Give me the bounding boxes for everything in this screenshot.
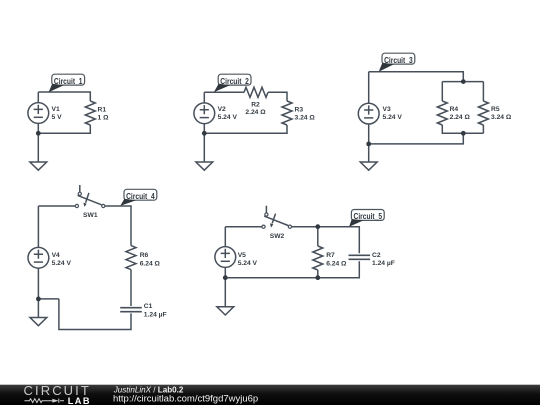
- svg-text:2.24 Ω: 2.24 Ω: [245, 109, 266, 116]
- svg-text:5.24 V: 5.24 V: [238, 260, 258, 267]
- svg-text:5.24 V: 5.24 V: [383, 114, 403, 121]
- svg-text:V5: V5: [238, 252, 246, 259]
- svg-text:SW2: SW2: [270, 233, 285, 240]
- svg-text:C2: C2: [372, 252, 381, 259]
- svg-text:LAB: LAB: [68, 396, 91, 405]
- svg-text:R7: R7: [326, 252, 335, 259]
- svg-text:V2: V2: [218, 106, 226, 113]
- svg-text:V3: V3: [383, 106, 391, 113]
- svg-text:1.24 µF: 1.24 µF: [372, 260, 395, 267]
- svg-text:R3: R3: [295, 107, 304, 114]
- svg-text:6.24 Ω: 6.24 Ω: [326, 260, 347, 267]
- svg-text:1.24 µF: 1.24 µF: [144, 311, 167, 318]
- svg-text:5.24 V: 5.24 V: [218, 114, 238, 121]
- svg-text:SW1: SW1: [83, 212, 98, 219]
- svg-text:R6: R6: [140, 252, 149, 259]
- svg-text:R4: R4: [450, 106, 459, 113]
- svg-text:R2: R2: [251, 102, 260, 109]
- svg-text:3.24 Ω: 3.24 Ω: [295, 115, 316, 122]
- svg-text:2.24 Ω: 2.24 Ω: [450, 114, 471, 121]
- svg-text:V4: V4: [52, 252, 60, 259]
- svg-text:V1: V1: [52, 106, 60, 113]
- svg-text:5.24 V: 5.24 V: [52, 260, 72, 267]
- svg-text:http://circuitlab.com/ct9fgd7w: http://circuitlab.com/ct9fgd7wyju6p: [113, 393, 258, 404]
- svg-text:3.24 Ω: 3.24 Ω: [491, 114, 512, 121]
- svg-text:5 V: 5 V: [52, 114, 63, 121]
- svg-text:1 Ω: 1 Ω: [98, 115, 110, 122]
- svg-text:6.24 Ω: 6.24 Ω: [140, 260, 161, 267]
- svg-text:R1: R1: [98, 107, 107, 114]
- svg-text:R5: R5: [491, 106, 500, 113]
- svg-text:C1: C1: [144, 303, 153, 310]
